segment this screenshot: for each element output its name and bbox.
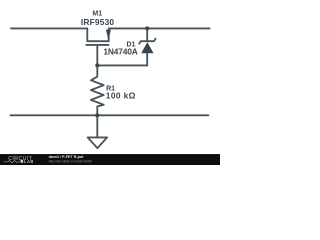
svg-text:IRF9530: IRF9530 (81, 17, 115, 27)
svg-text:1N4740A: 1N4740A (103, 47, 137, 57)
svg-text:http://circuitlab.com/c6m42Nb: http://circuitlab.com/c6m42Nb (49, 159, 92, 163)
svg-text:100 kΩ: 100 kΩ (106, 91, 136, 101)
svg-text:LAB: LAB (24, 159, 34, 164)
